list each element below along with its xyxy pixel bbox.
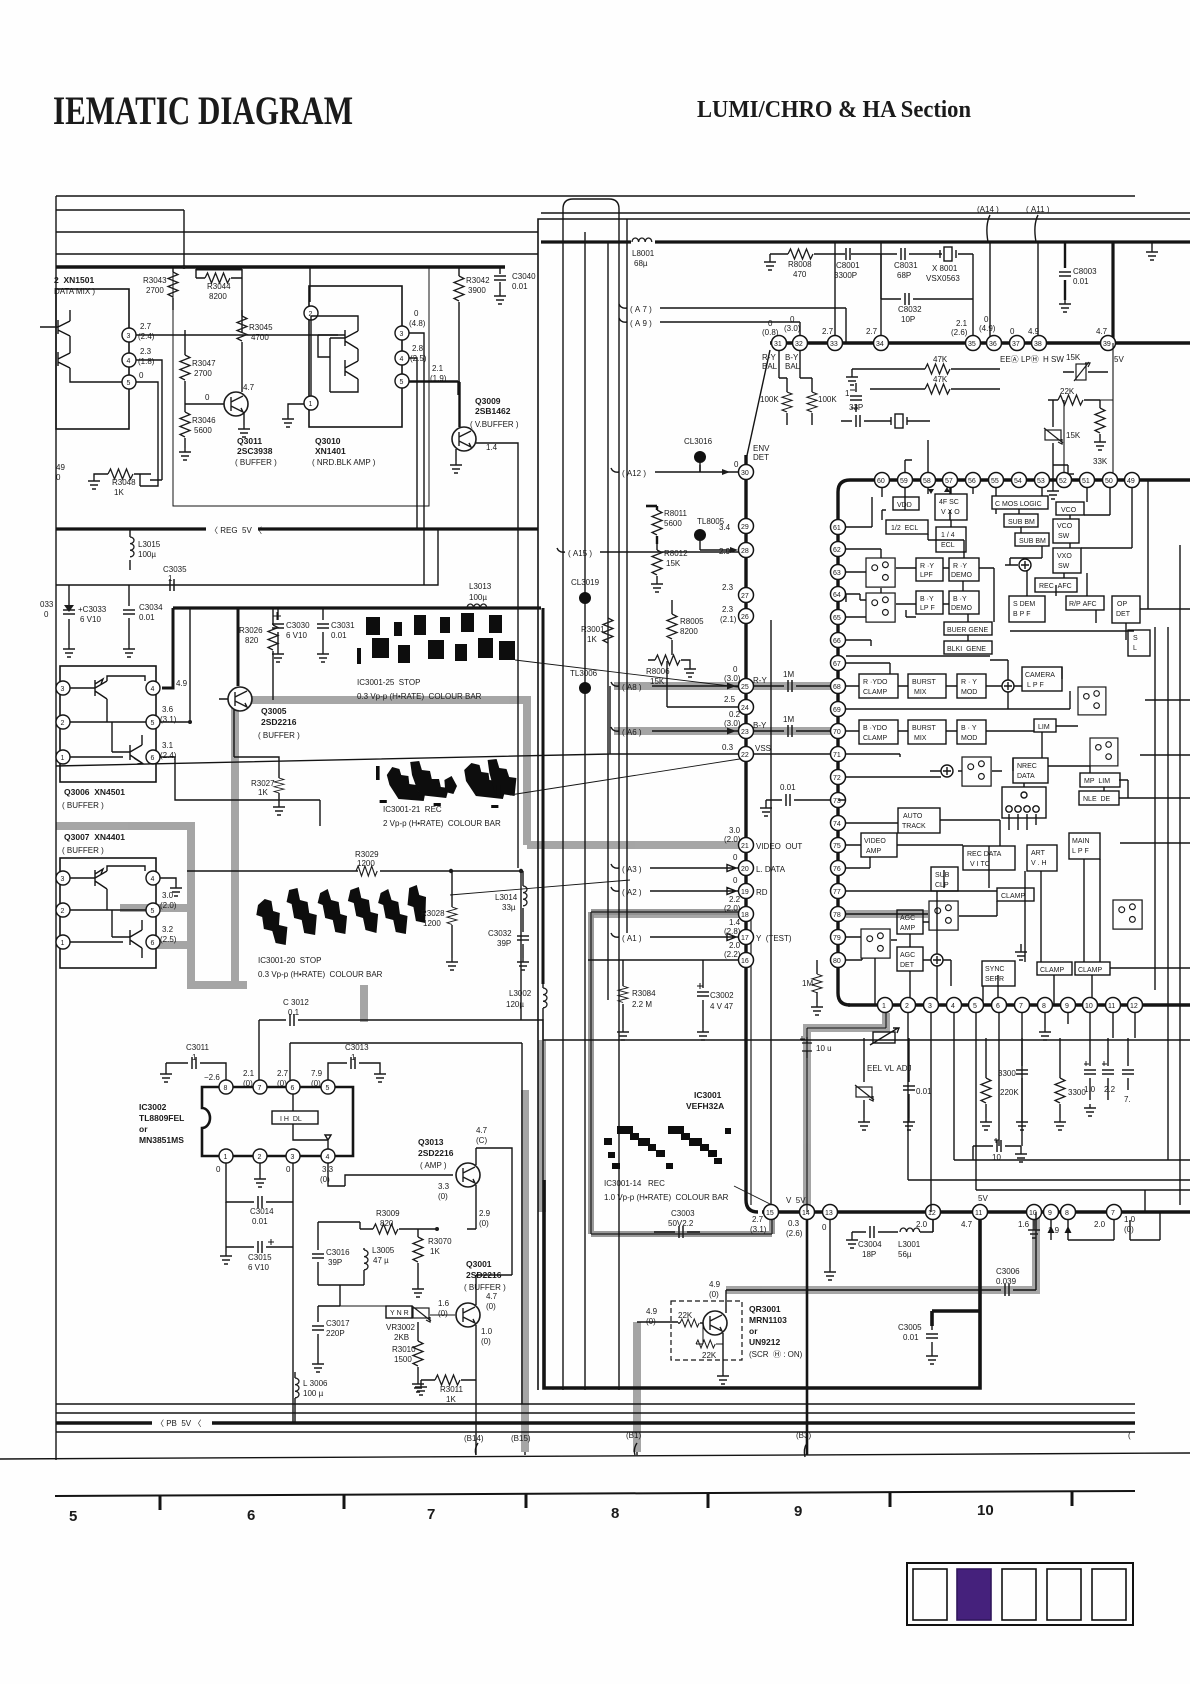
svg-text:( A 9 ): ( A 9 )	[630, 319, 652, 328]
resistor 22K QR left	[678, 1311, 703, 1327]
resistor R3045	[237, 310, 273, 392]
wire pin4 to Q3013	[328, 1163, 453, 1186]
svg-text:4: 4	[326, 1154, 330, 1161]
svg-text:5V: 5V	[1114, 355, 1124, 364]
svg-text:1: 1	[845, 389, 850, 398]
ground R3028	[446, 958, 458, 970]
svg-text:( V.BUFFER ): ( V.BUFFER )	[470, 420, 519, 429]
rail right IC3001	[838, 527, 850, 1005]
pin 17	[739, 930, 754, 945]
svg-text:8: 8	[224, 1085, 228, 1092]
pin 62	[831, 542, 846, 557]
arrows small interior	[928, 487, 950, 494]
inductor L3001	[898, 1220, 933, 1259]
wire top bus 3	[56, 231, 538, 233]
value 2.5	[724, 695, 736, 704]
wire base Q3011	[185, 403, 224, 405]
svg-text:820: 820	[245, 636, 259, 645]
wire C3016/L3005 join	[318, 1285, 364, 1306]
box REC AFC	[1035, 578, 1077, 592]
svg-text:DET: DET	[753, 453, 769, 462]
box R-Y MOD	[957, 674, 986, 698]
value 2.1 (2.6) pin35	[951, 319, 968, 337]
box Q3010 XN1401	[309, 286, 402, 427]
interior wires right block	[838, 497, 1128, 1005]
svg-text:L3002: L3002	[509, 989, 532, 998]
svg-text:4.9: 4.9	[1028, 327, 1040, 336]
pin 6	[992, 998, 1007, 1013]
svg-text:IEMATIC DIAGRAM: IEMATIC DIAGRAM	[53, 88, 353, 133]
wire bus to Q3010 pin2	[309, 267, 311, 302]
pin 3 Q3010 right	[395, 326, 409, 340]
svg-text:VCO: VCO	[1057, 523, 1073, 530]
box CLAMP b1	[1037, 962, 1072, 975]
svg-text:C3011: C3011	[186, 1043, 210, 1052]
svg-text:R3001: R3001	[581, 625, 605, 634]
svg-text:470: 470	[793, 270, 807, 279]
svg-text:B-Y: B-Y	[785, 353, 799, 362]
pin 12	[1128, 998, 1143, 1013]
svg-text:C3034: C3034	[139, 603, 163, 612]
svg-text:0: 0	[734, 460, 739, 469]
svg-text:R3084: R3084	[632, 989, 656, 998]
arrow A8	[727, 683, 736, 690]
svg-text:1: 1	[882, 1003, 886, 1010]
label B3	[796, 1431, 811, 1440]
svg-text:R3045: R3045	[249, 323, 273, 332]
svg-text:S: S	[1133, 635, 1138, 642]
svg-text:100µ: 100µ	[469, 593, 487, 602]
value 2.2 (2.0)	[724, 895, 741, 913]
page indicator box 1	[913, 1569, 947, 1620]
svg-text:V . H: V . H	[1031, 860, 1047, 867]
svg-text:(2.0): (2.0)	[160, 901, 177, 910]
svg-text:15K: 15K	[666, 559, 681, 568]
svg-text:9: 9	[1065, 1003, 1069, 1010]
svg-text:R ·Y: R ·Y	[953, 563, 967, 570]
svg-text:UN9212: UN9212	[749, 1337, 780, 1347]
pin 22	[739, 747, 754, 762]
svg-text:(B14): (B14)	[464, 1434, 484, 1443]
svg-text:31: 31	[774, 341, 782, 348]
capacitor C3034	[123, 585, 163, 645]
svg-text:33K: 33K	[1093, 457, 1108, 466]
svg-text:22K: 22K	[1060, 387, 1075, 396]
svg-text:2: 2	[61, 908, 65, 915]
box R/P AFC	[1066, 596, 1104, 610]
shaded route Y row to pin18	[592, 910, 928, 918]
svg-text:13: 13	[825, 1210, 833, 1217]
svg-text:1: 1	[309, 401, 313, 408]
box LIM	[1034, 719, 1056, 732]
resistor R3047	[180, 330, 216, 404]
value 2.0 pin12	[916, 1220, 928, 1229]
svg-text:(2.6): (2.6)	[951, 328, 968, 337]
resistor R3001	[581, 618, 613, 680]
svg-text:6: 6	[996, 1003, 1000, 1010]
value 1.0 (0) pin7	[1124, 1215, 1136, 1234]
svg-text:50V2.2: 50V2.2	[668, 1219, 694, 1228]
value -2.6	[204, 1073, 220, 1082]
wire pin13 ground	[829, 1220, 831, 1268]
pin 2 IC3002	[253, 1149, 267, 1163]
label R-Y BAL	[762, 353, 778, 371]
pin 31	[772, 336, 787, 351]
svg-text:L8001: L8001	[632, 249, 655, 258]
resistor R8012	[652, 544, 688, 580]
svg-text:R8005: R8005	[680, 617, 704, 626]
wire pin31 down	[779, 350, 787, 392]
value 2.0 (2.2)	[724, 941, 741, 959]
box VDD	[893, 497, 919, 510]
shaded route around Q3007 top	[56, 826, 247, 985]
svg-text:4 V 47: 4 V 47	[710, 1002, 734, 1011]
value 2.7 pin34	[866, 327, 878, 336]
node dot	[182, 265, 186, 269]
svg-text:R3070: R3070	[428, 1237, 452, 1246]
label V 5V	[786, 1196, 806, 1205]
svg-text:0.01: 0.01	[1073, 277, 1089, 286]
svg-text:MIX: MIX	[914, 689, 927, 696]
pin 4 IC3002	[321, 1149, 335, 1163]
svg-text:2: 2	[258, 1154, 262, 1161]
relay box 4dots	[1002, 783, 1046, 830]
svg-text:5: 5	[326, 1085, 330, 1092]
dot CL3019	[571, 578, 600, 604]
svg-text:I H DL: I H DL	[280, 1116, 302, 1123]
label A7	[630, 305, 652, 314]
value 2.9	[719, 547, 731, 556]
ground R3070	[412, 1285, 424, 1297]
label 33K	[1093, 457, 1108, 466]
svg-text:R3011: R3011	[440, 1385, 464, 1394]
rail diagonal to pin31	[746, 350, 770, 460]
value 0 pin13	[822, 1223, 827, 1232]
wire 47K rows	[852, 369, 1000, 389]
svg-text:CLP: CLP	[935, 882, 949, 889]
pin 79	[831, 930, 846, 945]
shaded route A6 to pin23	[614, 727, 834, 735]
svg-text:4.9: 4.9	[646, 1307, 658, 1316]
svg-text:2: 2	[905, 1003, 909, 1010]
svg-text:SUB BM: SUB BM	[1008, 519, 1035, 526]
svg-text:(3.0): (3.0)	[724, 719, 741, 728]
svg-text:1200: 1200	[357, 859, 375, 868]
capacitor C8001	[834, 248, 860, 280]
svg-text:4.7: 4.7	[243, 383, 255, 392]
pin 5 IC3002	[321, 1080, 335, 1094]
svg-text:2 XN1501: 2 XN1501	[54, 275, 94, 285]
svg-text:1.4: 1.4	[486, 443, 498, 452]
svg-text:25: 25	[741, 684, 749, 691]
svg-text:0.01: 0.01	[780, 783, 796, 792]
caption IC3001-21	[383, 805, 501, 828]
box 4FSC VXO	[935, 494, 967, 520]
wire A1	[611, 933, 738, 941]
pin 64	[831, 587, 846, 602]
resistor 1M pin80	[802, 960, 822, 1003]
svg-text:QR3001: QR3001	[749, 1304, 781, 1314]
ground C3032	[517, 958, 529, 970]
svg-text:2.7: 2.7	[822, 327, 834, 336]
svg-text:033: 033	[40, 600, 54, 609]
caption IC3001-14	[604, 1179, 729, 1202]
ground at Q3010 pin1	[282, 415, 294, 427]
svg-text:R3009: R3009	[376, 1209, 400, 1218]
svg-text:39P: 39P	[328, 1258, 342, 1267]
svg-text:( A 7 ): ( A 7 )	[630, 305, 652, 314]
pin 36	[987, 336, 1002, 351]
svg-text:BAL: BAL	[785, 362, 801, 371]
value 1.6 (0)	[438, 1299, 450, 1318]
thin line 3	[56, 1431, 1135, 1433]
svg-text:5: 5	[127, 380, 131, 387]
svg-text:15: 15	[766, 1210, 774, 1217]
ground C3005	[926, 1352, 938, 1364]
svg-text:AGC: AGC	[900, 952, 915, 959]
box SUB BM 1	[1004, 514, 1038, 527]
capacitor C3032	[488, 929, 529, 958]
trimmer EEL vertical	[855, 1085, 874, 1118]
svg-text:49: 49	[56, 463, 65, 472]
shaded route VIDEO OUT to pin21	[527, 841, 742, 849]
svg-text:1.0: 1.0	[1084, 1085, 1096, 1094]
svg-text:1.6: 1.6	[1018, 1220, 1030, 1229]
svg-text:9: 9	[1048, 1210, 1052, 1217]
svg-text:26: 26	[741, 614, 749, 621]
pin 12 ext	[926, 1205, 941, 1220]
box VCO	[1056, 502, 1084, 515]
pin 51	[1080, 473, 1095, 488]
svg-text:L P F: L P F	[1072, 848, 1089, 855]
value 2.7 (3.1)	[750, 1215, 767, 1234]
value 2.0 pin8	[1094, 1220, 1106, 1229]
resistor 3300b	[1055, 1038, 1086, 1118]
svg-text:(0.8): (0.8)	[762, 328, 779, 337]
svg-text:10: 10	[1085, 1003, 1093, 1010]
svg-text:1K: 1K	[258, 788, 268, 797]
value 2.3 (2.1)	[720, 605, 737, 624]
pin 25	[739, 679, 754, 694]
resistor R3048	[102, 469, 151, 497]
svg-text:1.4: 1.4	[729, 918, 741, 927]
svg-text:C3014: C3014	[250, 1207, 274, 1216]
shaded route QR3001 to C3006	[726, 1210, 1036, 1290]
svg-text:EEⒶ: EEⒶ	[1000, 355, 1019, 364]
svg-text:L3015: L3015	[138, 540, 161, 549]
switch box MP	[1090, 738, 1118, 766]
svg-text:0.039: 0.039	[996, 1277, 1017, 1286]
svg-text:R3047: R3047	[192, 359, 216, 368]
value 1.9 pin9	[1048, 1226, 1060, 1235]
label A15	[568, 549, 592, 558]
svg-text:1: 1	[61, 755, 65, 762]
ground Q3007 pin4	[170, 884, 182, 896]
transistors inside Q3007	[70, 866, 146, 958]
pin 4 Q3010 right	[395, 351, 409, 365]
value 0.3 (2.6)	[786, 1219, 803, 1238]
wire thick top right elbow	[460, 266, 500, 269]
transistor Q3009	[452, 427, 476, 451]
resistor R8011	[652, 506, 688, 544]
svg-text:BLKI GENE: BLKI GENE	[947, 646, 986, 653]
svg-text:79: 79	[833, 935, 841, 942]
wire B15 column	[524, 1452, 526, 1455]
tall column line D	[626, 219, 628, 933]
pin 3 XN1501	[122, 328, 136, 342]
tall column line A	[563, 199, 619, 1390]
svg-text:65: 65	[833, 615, 841, 622]
svg-text:BURST: BURST	[912, 679, 936, 686]
label Q3011	[235, 436, 277, 467]
svg-text:1/2 ECL: 1/2 ECL	[891, 525, 918, 532]
svg-text:(B1): (B1)	[626, 1431, 641, 1440]
svg-text:100K: 100K	[760, 395, 779, 404]
svg-text:C3003: C3003	[671, 1209, 695, 1218]
ground below R3046	[179, 448, 191, 460]
wire under OP DET	[1010, 630, 1134, 632]
svg-text:( A11 ): ( A11 )	[1026, 205, 1050, 214]
capacitor C3035	[163, 565, 187, 591]
wire R8008 row	[770, 253, 973, 255]
svg-text:C3015: C3015	[248, 1253, 272, 1262]
ruler tick 2	[343, 1495, 346, 1509]
svg-text:4: 4	[127, 358, 131, 365]
partial cap right edge	[1122, 1038, 1134, 1104]
box R-Y DEMO	[949, 558, 979, 581]
resistor 220K	[981, 1038, 1019, 1118]
value 2.7 (0)	[277, 1069, 289, 1088]
pin 8	[1038, 998, 1053, 1013]
trimmer 15K vert	[1044, 400, 1081, 465]
capacitor C3012	[283, 998, 309, 1028]
ground C3002	[697, 1028, 709, 1040]
ground C3030	[272, 650, 284, 662]
svg-text:0: 0	[768, 319, 773, 328]
svg-text:12: 12	[1130, 1003, 1138, 1010]
value 3.0 (2.0)	[160, 891, 177, 910]
svg-text:14: 14	[802, 1210, 810, 1217]
inductor L3014	[495, 871, 527, 930]
svg-text:2: 2	[61, 720, 65, 727]
value 3.6 (3.1)	[160, 705, 177, 724]
pin 19	[739, 884, 754, 899]
svg-text:3: 3	[400, 331, 404, 338]
svg-text:C3032: C3032	[488, 929, 512, 938]
svg-text:0: 0	[205, 393, 210, 402]
ground R8012	[651, 580, 663, 592]
box BUER GENE	[944, 622, 992, 635]
svg-text:16: 16	[741, 958, 749, 965]
ground R8006	[684, 665, 696, 677]
ruler line	[55, 1491, 1135, 1496]
pin 60	[875, 473, 890, 488]
wire A15	[557, 548, 746, 552]
svg-text:74: 74	[833, 821, 841, 828]
capacitor 33P	[841, 403, 888, 427]
ground C3004	[846, 1232, 858, 1248]
tick B14	[475, 1443, 478, 1455]
svg-text:1: 1	[224, 1154, 228, 1161]
ground Q3009	[450, 449, 462, 473]
trimmer EEL horizontal	[870, 1028, 899, 1045]
capacitor C3002	[697, 960, 734, 1028]
svg-text:5V: 5V	[978, 1194, 988, 1203]
shaded frame left of IC3001 lower box	[538, 1040, 546, 1212]
svg-text:( A15 ): ( A15 )	[568, 549, 592, 558]
svg-text:34: 34	[876, 341, 884, 348]
capacitor C8003	[1059, 242, 1097, 300]
pin 73	[831, 793, 846, 808]
wire pin35 column	[972, 254, 974, 343]
svg-text:0: 0	[414, 309, 419, 318]
shaded route to C3012	[360, 985, 368, 1022]
value 1.0 (0)	[481, 1327, 493, 1346]
right edge cut box 1	[1128, 630, 1150, 656]
dashed box QR3001	[671, 1301, 742, 1360]
svg-text:33: 33	[830, 341, 838, 348]
wire EEL drop	[863, 1040, 865, 1082]
wire left page vertical	[55, 196, 57, 1460]
svg-text:B ·YDO: B ·YDO	[863, 725, 888, 732]
svg-text:3.2: 3.2	[162, 925, 174, 934]
value 4.7 (C)	[476, 1126, 488, 1145]
box VXO SW	[1053, 548, 1081, 573]
svg-text:15K: 15K	[650, 677, 665, 686]
box CAMERA LPF	[1022, 667, 1062, 691]
pin 67	[831, 656, 846, 671]
svg-text:C3006: C3006	[996, 1267, 1020, 1276]
svg-text:72: 72	[833, 775, 841, 782]
crystal X8001	[926, 247, 960, 283]
pin 49	[1125, 473, 1140, 488]
svg-text:L3005: L3005	[372, 1246, 395, 1255]
svg-text:+C3033: +C3033	[78, 605, 107, 614]
label A8	[622, 683, 642, 692]
svg-text:R3048: R3048	[112, 478, 136, 487]
wire VR to Q3001 base	[340, 1306, 455, 1315]
svg-text:1: 1	[192, 1053, 197, 1062]
capacitor C3016	[312, 1248, 350, 1285]
value 0 (0.8) pin31	[762, 319, 779, 337]
value 1.4	[486, 443, 498, 452]
resistor R3042	[454, 267, 490, 427]
wire pin3 Q3010	[409, 333, 424, 585]
pin row bottom external thick	[762, 1210, 1190, 1213]
svg-text:2SB1462: 2SB1462	[475, 406, 511, 416]
svg-text:0: 0	[216, 1165, 221, 1174]
svg-text:CL3019: CL3019	[571, 578, 600, 587]
right edge cut box 2	[1113, 900, 1142, 929]
switch box NREC	[962, 757, 991, 786]
svg-text:3: 3	[61, 686, 65, 693]
partial label 033	[40, 600, 54, 619]
svg-text:(2.0): (2.0)	[724, 835, 741, 844]
svg-text:0.3 Vp-p (H•RATE) COLOUR BAR: 0.3 Vp-p (H•RATE) COLOUR BAR	[357, 692, 482, 701]
pin 68	[831, 679, 846, 694]
svg-text:6: 6	[151, 940, 155, 947]
ruler tick 6	[1071, 1492, 1074, 1506]
wire EEL row	[864, 1038, 1190, 1040]
svg-text:2.8: 2.8	[412, 344, 424, 353]
svg-text:6: 6	[247, 1507, 255, 1524]
svg-text:20: 20	[741, 866, 749, 873]
svg-text:61: 61	[833, 525, 841, 532]
svg-text:37: 37	[1012, 341, 1020, 348]
pin 72	[831, 770, 846, 785]
ground C8003	[1059, 300, 1071, 312]
svg-text:R3010: R3010	[392, 1345, 416, 1354]
